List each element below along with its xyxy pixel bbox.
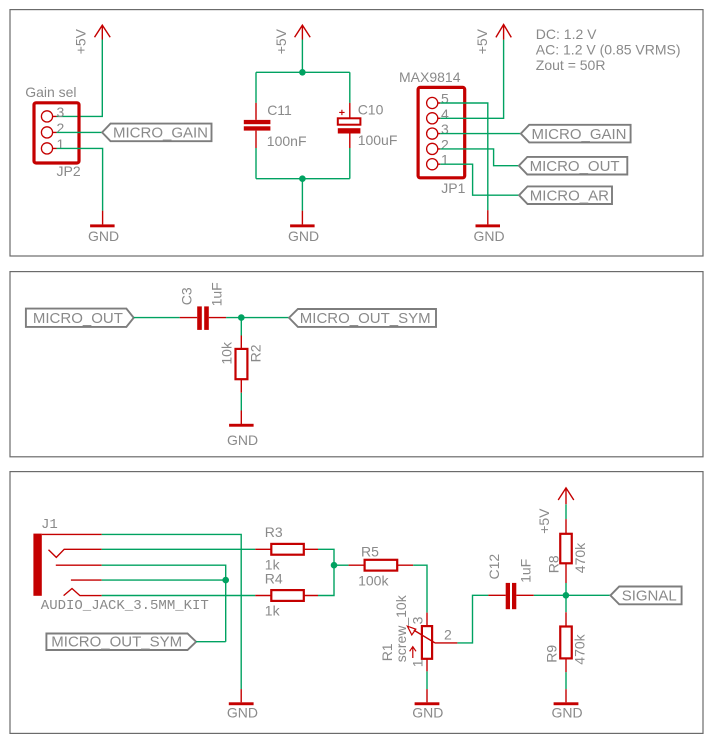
svg-text:C3: C3 [178, 287, 194, 305]
svg-text:R5: R5 [361, 544, 379, 560]
svg-text:3: 3 [57, 104, 65, 120]
ground (JP2) [88, 211, 119, 244]
wire JP2 pin 2 to MICRO_GAIN [57, 131, 103, 133]
svg-text:C10: C10 [358, 102, 384, 118]
svg-text:C12: C12 [486, 554, 502, 580]
net label MICRO_AR [519, 186, 612, 204]
svg-text:screw_10k: screw_10k [393, 594, 409, 662]
svg-text:R4: R4 [265, 571, 283, 587]
wire +5V to cap top rail [256, 40, 350, 73]
svg-text:MICRO_OUT: MICRO_OUT [33, 310, 123, 327]
svg-text:GND: GND [227, 705, 258, 721]
svg-text:1: 1 [441, 152, 449, 168]
wire C3 to MICRO_OUT_SYM [226, 317, 289, 319]
svg-text:GND: GND [288, 228, 319, 244]
resistor R9 [543, 612, 587, 672]
note: output levels [536, 26, 681, 73]
svg-text:GND: GND [412, 705, 443, 721]
connector J1 audio jack [33, 517, 208, 614]
svg-text:1k: 1k [265, 603, 281, 619]
wire J1 switch contact to R4 [64, 589, 256, 596]
wire node to R5 [334, 564, 349, 566]
wire J1 sleeve to GND [42, 534, 241, 689]
resistor R8 [546, 519, 588, 583]
svg-text:AUDIO_JACK_3.5MM_KIT: AUDIO_JACK_3.5MM_KIT [41, 598, 209, 614]
svg-text:4: 4 [441, 106, 449, 122]
net label MICRO_OUT_SYM [289, 309, 436, 327]
net label MICRO_GAIN (JP1) [521, 125, 631, 143]
connector JP1 [418, 87, 466, 195]
wire J1 tip to MICRO_OUT_SYM [56, 565, 226, 642]
svg-text:2: 2 [57, 120, 65, 136]
node R3/R4/R5 [331, 562, 338, 569]
wire J1 ring to junction [71, 579, 226, 581]
net label MICRO_OUT [26, 309, 134, 327]
svg-text:1: 1 [57, 136, 65, 152]
svg-text:Zout = 50R: Zout = 50R [536, 57, 606, 73]
svg-text:GND: GND [551, 705, 582, 721]
svg-text:R9: R9 [543, 645, 559, 663]
svg-text:+5V: +5V [73, 28, 89, 54]
net label MICRO_OUT_SYM (J1) [46, 633, 196, 650]
wire MICRO_OUT_SYM to jack junction [196, 641, 226, 643]
svg-text:MICRO_GAIN: MICRO_GAIN [113, 125, 208, 142]
wire J1 switch contact to R3 [49, 549, 256, 557]
wire R4 to node [318, 565, 334, 595]
capacitor C11 [244, 72, 307, 178]
svg-text:2: 2 [444, 627, 452, 643]
resistor R3 [255, 524, 318, 573]
wire node to R9 [565, 595, 567, 612]
svg-text:1: 1 [410, 659, 426, 667]
ground (R1) [412, 689, 443, 720]
ground (R2) [227, 411, 258, 449]
wire JP1 pin 5 to GND [440, 103, 488, 210]
svg-text:5: 5 [441, 91, 449, 107]
svg-text:100k: 100k [358, 572, 389, 588]
svg-text:10k: 10k [219, 341, 235, 365]
svg-text:+5V: +5V [273, 28, 289, 54]
wire JP1 pin 1 to MICRO_AR [440, 164, 519, 195]
node MICRO_OUT_SYM junction [238, 314, 245, 321]
svg-text:3: 3 [410, 616, 426, 624]
supply +5V (JP2) [73, 25, 111, 54]
net label SIGNAL [610, 587, 681, 605]
svg-text:R2: R2 [247, 344, 263, 362]
svg-text:1uF: 1uF [209, 282, 225, 306]
resistor R2 [219, 336, 264, 393]
resistor R5 [349, 544, 414, 589]
svg-text:MICRO_OUT_SYM: MICRO_OUT_SYM [300, 310, 431, 327]
wire R1 wiper to C12 [457, 595, 488, 643]
svg-text:MICRO_AR: MICRO_AR [530, 187, 609, 204]
wire JP1 pin 2 to MICRO_OUT [440, 149, 519, 166]
svg-text:DC: 1.2 V: DC: 1.2 V [536, 26, 597, 42]
wire R3 to node [318, 549, 334, 565]
wire +5V to JP2 pin 3 [57, 40, 103, 117]
svg-text:GND: GND [473, 228, 504, 244]
supply +5V (C11/C10) [273, 25, 310, 54]
wire JP1 pin 4 to +5V [440, 40, 503, 119]
resistor R4 [255, 571, 318, 619]
wire cap bottom rail [256, 179, 350, 211]
svg-text:AC: 1.2 V (0.85 VRMS): AC: 1.2 V (0.85 VRMS) [536, 41, 681, 57]
svg-text:470k: 470k [572, 633, 588, 664]
svg-text:J1: J1 [41, 517, 58, 533]
wire C12 to SIGNAL node [534, 594, 611, 596]
wire MICRO_OUT to C3 [134, 317, 180, 319]
wire R9 to GND [565, 672, 567, 689]
node cap bottom [299, 175, 306, 182]
svg-text:R8: R8 [546, 555, 562, 573]
svg-text:MICRO_GAIN: MICRO_GAIN [532, 126, 627, 143]
supply +5V (R8) [536, 488, 574, 534]
net label MICRO_OUT (JP1) [519, 157, 627, 175]
wire R1 pin 1 to GND [426, 671, 428, 689]
svg-text:MAX9814: MAX9814 [399, 69, 461, 85]
connector JP2 [25, 84, 81, 179]
wire R2 to GND [240, 393, 242, 411]
ground (J1) [227, 689, 258, 720]
svg-text:MICRO_OUT: MICRO_OUT [530, 158, 620, 175]
svg-text:SIGNAL: SIGNAL [622, 588, 677, 605]
svg-text:+5V: +5V [474, 28, 490, 54]
ground (JP1) [473, 210, 504, 244]
wire R8 to node [565, 583, 567, 595]
svg-text:GND: GND [88, 228, 119, 244]
node cap top [299, 69, 306, 76]
node jack junction [222, 577, 229, 584]
svg-text:1uF: 1uF [517, 559, 533, 583]
capacitor C3 [178, 282, 226, 330]
svg-text:3: 3 [441, 121, 449, 137]
svg-text:2: 2 [441, 136, 449, 152]
svg-text:470k: 470k [572, 542, 588, 573]
ground (C11/C10) [288, 211, 319, 244]
wire junction to R2 [240, 318, 242, 336]
node SIGNAL [563, 592, 570, 599]
svg-text:+5V: +5V [536, 508, 552, 534]
wire JP1 pin 3 to MICRO_GAIN [440, 133, 521, 135]
ground (R9) [551, 689, 582, 720]
wire JP2 pin 1 to GND [57, 148, 103, 210]
svg-text:C11: C11 [267, 102, 292, 118]
potentiometer R1 [379, 594, 458, 671]
supply +5V (JP1) [474, 25, 511, 55]
svg-text:GND: GND [227, 432, 258, 448]
capacitor C10 [338, 72, 398, 178]
svg-text:JP1: JP1 [441, 180, 465, 196]
svg-text:R3: R3 [265, 524, 283, 540]
net label MICRO_GAIN [102, 124, 211, 142]
svg-text:MICRO_OUT_SYM: MICRO_OUT_SYM [51, 633, 182, 650]
wire R5 to R1 pin 3 [413, 565, 427, 612]
svg-text:100uF: 100uF [358, 132, 398, 148]
svg-text:Gain sel: Gain sel [25, 84, 76, 100]
wire +5V to R8 [565, 504, 567, 519]
svg-text:100nF: 100nF [267, 133, 307, 149]
svg-text:JP2: JP2 [57, 163, 81, 179]
capacitor C12 [486, 554, 534, 610]
